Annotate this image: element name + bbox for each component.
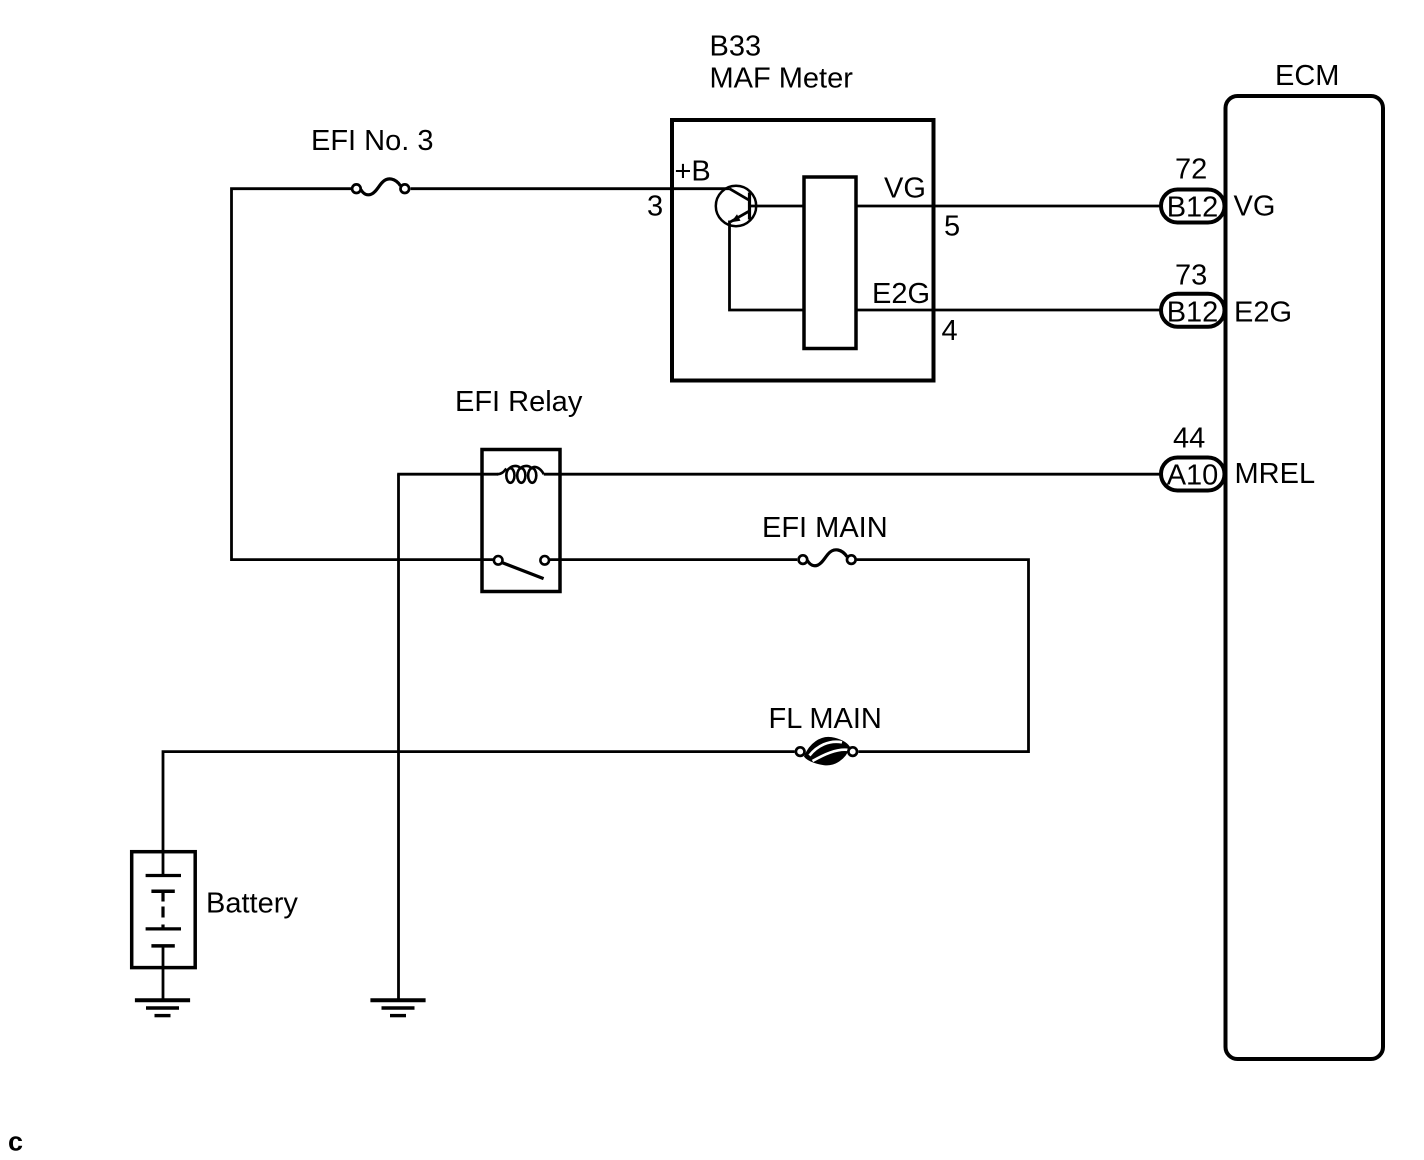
svg-text:B12: B12: [1167, 297, 1219, 329]
label MAF Meter: [710, 63, 854, 95]
svg-text:4: 4: [942, 315, 958, 347]
svg-text:MAF Meter: MAF Meter: [710, 63, 854, 95]
pin number 5: [944, 210, 960, 242]
ground (relay): [370, 1000, 425, 1015]
battery: [132, 852, 196, 968]
resistor element inside MAF meter: [804, 177, 856, 349]
pin number 44: [1173, 422, 1205, 454]
svg-text:MREL: MREL: [1235, 458, 1316, 490]
label EFI Relay: [455, 386, 583, 418]
label Battery: [206, 887, 298, 919]
wire battery negative to ground: [162, 946, 165, 1000]
svg-text:73: 73: [1175, 260, 1207, 292]
label B33: [710, 31, 762, 63]
fuse EFI MAIN: [799, 550, 856, 566]
svg-text:EFI Relay: EFI Relay: [455, 386, 583, 418]
label FL MAIN: [769, 703, 882, 735]
svg-text:VG: VG: [884, 172, 926, 204]
label E2G (ECM): [1234, 296, 1292, 328]
relay coil L1: [497, 466, 544, 483]
svg-text:72: 72: [1175, 154, 1207, 186]
svg-text:E2G: E2G: [872, 278, 930, 310]
pin number 3: [647, 191, 663, 223]
wire relay coil to ground: [397, 474, 400, 999]
wire E2G: element to ECM B12: [857, 309, 1162, 312]
connector pin 73 B12 (E2G): [1161, 294, 1225, 329]
svg-text:Battery: Battery: [206, 887, 298, 919]
ECM box: [1226, 96, 1384, 1059]
svg-text:EFI MAIN: EFI MAIN: [762, 512, 888, 544]
pin number 4: [942, 315, 958, 347]
relay switch contacts and arm: [494, 556, 549, 579]
wire coil feed left: [397, 473, 498, 476]
svg-text:VG: VG: [1234, 190, 1276, 222]
label VG (MAF): [884, 172, 926, 204]
svg-text:ECM: ECM: [1275, 60, 1339, 92]
wire transistor to element VG side: [750, 205, 804, 208]
svg-text:+B: +B: [675, 156, 711, 188]
pin number 73: [1175, 260, 1207, 292]
label MREL: [1235, 458, 1316, 490]
wire left feed loop: fuse to relay switch: [232, 189, 494, 560]
svg-text:EFI No. 3: EFI No. 3: [311, 125, 434, 157]
svg-text:5: 5: [944, 210, 960, 242]
wire transistor emitter to element E2G side: [730, 221, 804, 311]
MAF meter box B33: [672, 120, 934, 381]
svg-text:c: c: [8, 1127, 23, 1157]
fusible link FL MAIN: [796, 737, 857, 765]
svg-text:E2G: E2G: [1234, 296, 1292, 328]
wire FL MAIN fuse to battery positive: [163, 752, 795, 876]
wire from EFI No.3 fuse to MAF +B pin 3: [411, 187, 730, 190]
ground (battery): [135, 1000, 190, 1015]
label +B: [675, 156, 711, 188]
label E2G (MAF): [872, 278, 930, 310]
svg-text:FL MAIN: FL MAIN: [769, 703, 882, 735]
transistor Q1 inside MAF meter: [716, 186, 756, 226]
connector pin 72 B12 (VG): [1161, 190, 1225, 224]
svg-text:B12: B12: [1167, 192, 1219, 224]
wire VG: element to ECM B12: [857, 205, 1162, 208]
label EFI No. 3: [311, 125, 434, 157]
fuse EFI No. 3: [352, 179, 409, 195]
pin number 72: [1175, 154, 1207, 186]
label EFI MAIN: [762, 512, 888, 544]
svg-text:3: 3: [647, 191, 663, 223]
EFI relay box: [482, 450, 560, 592]
wire relay switch to EFI MAIN fuse: [549, 558, 797, 561]
connector pin 44 A10 (MREL): [1161, 458, 1225, 492]
label VG (ECM): [1234, 190, 1276, 222]
svg-text:B33: B33: [710, 31, 762, 63]
label ECM: [1275, 60, 1339, 92]
wire relay coil to ECM MREL A10: [544, 473, 1161, 476]
wire EFI MAIN fuse to FL MAIN right corner: [857, 560, 1029, 752]
svg-text:44: 44: [1173, 422, 1205, 454]
page letter c: [8, 1127, 23, 1157]
svg-text:A10: A10: [1167, 460, 1219, 492]
